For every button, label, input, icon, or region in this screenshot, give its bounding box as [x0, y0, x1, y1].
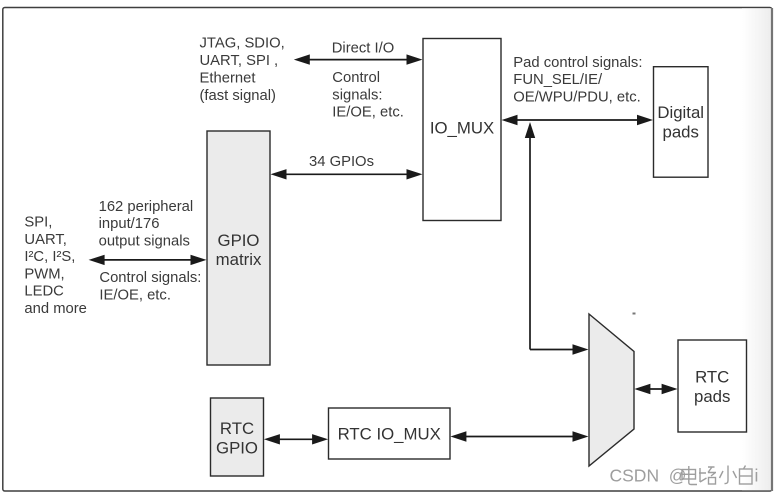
mux trapezoid	[589, 314, 634, 466]
svg-text:UART, SPI ,: UART, SPI ,	[200, 53, 279, 69]
wire: peripheral signals arrow (to GPIO matrix)	[89, 255, 207, 265]
svg-text:Ethernet: Ethernet	[200, 70, 256, 86]
svg-text:(fast signal): (fast signal)	[200, 88, 277, 104]
text: JTAG/SDIO list	[200, 35, 285, 104]
svg-text:pads: pads	[694, 387, 730, 406]
svg-text:Direct I/O: Direct I/O	[332, 40, 394, 56]
svg-text:RTC: RTC	[220, 419, 254, 438]
glyph dian	[682, 470, 696, 480]
svg-text:UART,: UART,	[24, 232, 66, 248]
svg-text:JTAG, SDIO,: JTAG, SDIO,	[200, 35, 285, 51]
svg-text:i: i	[755, 466, 759, 486]
wire: 34 GPIOs arrow (GPIO matrix to IO_MUX)	[271, 169, 423, 179]
box GPIO matrix	[207, 131, 270, 365]
box RTC pads	[678, 340, 747, 432]
text: 162 peripheral	[99, 199, 194, 249]
svg-text:and more: and more	[24, 301, 87, 317]
box Digital pads	[654, 67, 709, 178]
wire: RTC IO_MUX to mux trapezoid arrow	[450, 431, 588, 441]
stray dot artifact	[633, 313, 636, 315]
svg-text:GPIO: GPIO	[216, 438, 258, 457]
svg-text:Pad control signals:: Pad control signals:	[513, 55, 642, 71]
glyph xiao	[720, 466, 737, 484]
wire: pad control arrow (IO_MUX to Digital pads)	[502, 115, 654, 125]
wire: RTC GPIO to RTC IO_MUX arrow	[264, 434, 328, 444]
svg-text:CSDN @: CSDN @	[610, 466, 687, 486]
svg-text:matrix: matrix	[216, 250, 262, 269]
svg-text:output signals: output signals	[99, 233, 190, 249]
wire: mux trapezoid to RTC pads arrow	[634, 384, 677, 394]
text: SPI/UART peripheral list	[24, 215, 87, 318]
svg-text:signals:: signals:	[332, 87, 382, 103]
svg-text:Digital: Digital	[657, 103, 704, 122]
text: Pad control signals	[513, 55, 642, 105]
svg-text:FUN_SEL/IE/: FUN_SEL/IE/	[513, 72, 603, 88]
svg-text:GPIO: GPIO	[218, 231, 260, 250]
svg-text:pads: pads	[663, 123, 699, 142]
svg-text:input/176: input/176	[99, 216, 160, 232]
text: control signals (upper)	[332, 70, 404, 121]
box RTC IO_MUX	[329, 408, 451, 459]
svg-text:I²C, I²S,: I²C, I²S,	[24, 249, 75, 265]
glyph lu	[699, 467, 716, 482]
svg-text:IO_MUX: IO_MUX	[430, 119, 494, 138]
box RTC GPIO	[211, 398, 264, 476]
svg-text:OE/WPU/PDU, etc.: OE/WPU/PDU, etc.	[513, 89, 640, 105]
glyph bai	[744, 466, 746, 470]
svg-text:Control signals:: Control signals:	[99, 270, 201, 286]
watermark CSDN	[610, 466, 759, 486]
svg-text:IE/OE, etc.: IE/OE, etc.	[99, 288, 171, 304]
svg-text:34 GPIOs: 34 GPIOs	[309, 154, 374, 170]
svg-text:Control: Control	[332, 70, 380, 86]
svg-text:RTC: RTC	[695, 368, 729, 387]
wire: vertical link from pad-control line down to mux trapezoid	[525, 122, 589, 355]
svg-text:162 peripheral: 162 peripheral	[99, 199, 194, 215]
wire: Direct I/O arrow (JTAG block to IO_MUX)	[294, 54, 423, 64]
svg-text:IE/OE, etc.: IE/OE, etc.	[332, 105, 404, 121]
svg-text:SPI,: SPI,	[24, 215, 52, 231]
text: control signals (lower)	[99, 270, 201, 304]
svg-text:LEDC: LEDC	[24, 284, 64, 300]
svg-text:PWM,: PWM,	[24, 266, 64, 282]
box IO_MUX	[423, 39, 501, 221]
svg-text:RTC IO_MUX: RTC IO_MUX	[338, 424, 441, 443]
